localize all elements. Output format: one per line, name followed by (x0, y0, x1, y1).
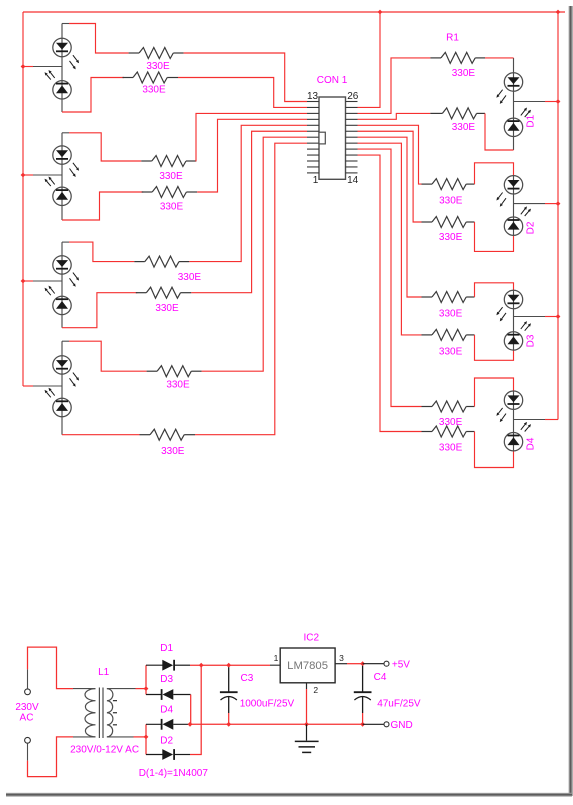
svg-text:1: 1 (274, 653, 279, 663)
svg-text:330E: 330E (452, 122, 476, 133)
wire +V to IC2 pin1 (270, 664, 280, 666)
wire D4 chain (513, 391, 515, 451)
LED D1 top (504, 73, 522, 91)
svg-text:330E: 330E (178, 272, 202, 283)
label 330E R2 (452, 122, 476, 133)
svg-text:D2: D2 (526, 221, 537, 234)
label GND (391, 720, 413, 731)
resistor D4b leads (422, 431, 475, 433)
wire top supply rail (23, 11, 565, 13)
junction ground node bridge (188, 722, 193, 727)
wire IC2 pin2 to ground (306, 683, 308, 725)
pin number 1 (313, 175, 319, 186)
label D1 right (526, 114, 537, 127)
wire D3 cathode (146, 689, 162, 695)
wire left common bus (22, 12, 24, 386)
wire rail to CON1 pin 25 (358, 12, 381, 107)
wire secondary top to bridge (107, 688, 146, 690)
junction secondary bottom (144, 735, 149, 740)
svg-text:330E: 330E (161, 446, 185, 457)
wire CON1 pin24 to R1 (358, 58, 431, 114)
label D2 (160, 735, 173, 746)
wire L3 top LED to resistor (62, 242, 134, 262)
svg-text:14: 14 (347, 175, 359, 186)
svg-text:IC2: IC2 (304, 633, 320, 644)
diode D1 1N4007 (162, 660, 174, 671)
terminal 230V AC neutral (25, 737, 31, 743)
svg-text:D1: D1 (160, 643, 173, 654)
LED D1 top arrows (496, 90, 506, 104)
LED L3 top (53, 256, 71, 274)
wire LED pair L2 tap (23, 174, 62, 176)
junction right bus D2 (556, 201, 561, 206)
label +5V (392, 659, 410, 670)
label L1 (98, 667, 110, 678)
wire D2 cathode to +V node (174, 665, 201, 754)
junction +V node a (199, 663, 204, 668)
LED L3 bottom (53, 296, 71, 314)
LED L4 top (53, 356, 71, 374)
wire CON1 to D4 top resistor (358, 149, 422, 406)
LED L4 top arrows (70, 373, 80, 387)
svg-text:330E: 330E (439, 309, 463, 320)
resistor D3a 330E (432, 292, 466, 303)
connector CON1 key notch (319, 132, 325, 144)
resistor D4a 330E (432, 401, 466, 412)
LED L2 top (53, 146, 71, 164)
wire D4a resistor to top LED (475, 378, 514, 407)
junction ground IC2 (304, 722, 309, 727)
diode D3 1N4007 (162, 689, 174, 700)
LED L2 bottom (53, 187, 71, 205)
svg-text:+5V: +5V (392, 659, 410, 670)
wire IC2 pin3 to +5V (335, 663, 363, 665)
svg-text:3: 3 (339, 653, 344, 663)
wire D3b resistor to bottom LED (475, 335, 514, 360)
wire L4 bottom LED to resistor (62, 434, 140, 436)
label 330E L2b (160, 202, 184, 213)
LED D4 bottom (504, 433, 522, 451)
resistor L4a leads (147, 370, 202, 372)
LED L4 bottom arrows (45, 388, 55, 398)
resistor D2b leads (422, 221, 475, 223)
resistor D3a leads (422, 296, 475, 298)
resistor L4a 330E (157, 366, 191, 377)
resistor D2b 330E (432, 217, 466, 228)
transformer L1 secondary (107, 689, 113, 737)
wire L4 top LED to resistor (62, 341, 147, 371)
LED D2 bottom (504, 217, 522, 235)
label 330E R1 (452, 68, 476, 79)
LED L3 bottom arrows (45, 286, 55, 296)
wire LED chain L1 (61, 24, 63, 113)
label D3 (160, 674, 173, 685)
LED D1 bottom (504, 118, 522, 136)
junction top-right rail/bus (556, 10, 561, 15)
LED D2 top arrows (496, 193, 506, 207)
label 230V AC (15, 702, 39, 724)
wire L3a resistor to CON1 (189, 125, 307, 261)
junction +V node b (226, 663, 231, 668)
diode D4 1N4007 (162, 719, 174, 730)
label 330E D4b (439, 443, 463, 454)
label 330E L1b (142, 85, 166, 96)
wire L4b resistor to CON1 (195, 143, 307, 435)
resistor L3a 330E (145, 256, 179, 267)
wire LED chain L4 (61, 341, 63, 435)
wire L3b resistor to CON1 (191, 131, 307, 292)
terminal +5V (384, 661, 389, 666)
resistor D3b leads (422, 334, 475, 336)
svg-text:CON 1: CON 1 (317, 75, 348, 86)
wire D4 cathode (146, 724, 162, 737)
svg-text:330E: 330E (439, 232, 463, 243)
wire ground rail (190, 723, 363, 725)
wire LED pair L4 tap (23, 385, 62, 387)
junction rail pin25 (378, 10, 383, 15)
wire D3a resistor to top LED (475, 283, 514, 297)
svg-text:330E: 330E (160, 202, 184, 213)
resistor L1a 330E (139, 48, 173, 59)
terminal GND (384, 722, 389, 727)
wire L2b resistor to CON1 (197, 119, 307, 192)
svg-text:230V: 230V (15, 702, 39, 713)
LED L4 bottom (53, 398, 71, 416)
wire R1 to D1 top LED (485, 57, 514, 59)
transformer L1 core (99, 688, 103, 739)
LED L1 bottom arrows (45, 70, 55, 80)
svg-text:330E: 330E (439, 196, 463, 207)
capacitor C4 47uF/25V (354, 666, 372, 725)
svg-text:330E: 330E (439, 443, 463, 454)
label 330E L4a (166, 380, 190, 391)
label 330E L4b (161, 446, 185, 457)
svg-text:2: 2 (313, 685, 318, 695)
wire GND stub (363, 723, 384, 725)
svg-text:230V/0-12V AC: 230V/0-12V AC (70, 745, 139, 756)
wire L3 bottom LED to resistor (62, 293, 137, 328)
svg-text:47uF/25V: 47uF/25V (377, 699, 421, 710)
label 330E D4a (439, 417, 463, 428)
svg-text:1000uF/25V: 1000uF/25V (240, 699, 295, 710)
svg-text:330E: 330E (439, 347, 463, 358)
resistor R2 leads (430, 112, 485, 114)
LED D2 top (504, 176, 522, 194)
svg-text:GND: GND (391, 720, 413, 731)
wire L2 bottom LED to resistor (62, 192, 143, 220)
wire CON1 to D4 bottom resistor (358, 155, 422, 431)
transformer L1 primary (85, 689, 96, 737)
page shadow right (569, 6, 573, 796)
pin number 14 (347, 175, 359, 186)
svg-text:D4: D4 (160, 705, 173, 716)
LED L1 top (53, 38, 71, 56)
junction right bus D1 (556, 99, 561, 104)
label 1000uF/25V (240, 699, 295, 710)
connector CON1 body (319, 97, 346, 179)
label D4 right (526, 437, 537, 450)
wire CON1 to D2 bottom resistor (358, 131, 422, 222)
LED L1 bottom (53, 81, 71, 99)
wire D2 tap to bus (514, 203, 559, 205)
wire D1 chain (513, 58, 515, 150)
wire D3 anode to ground node (173, 695, 190, 725)
svg-text:330E: 330E (166, 380, 190, 391)
resistor L3b 330E (146, 287, 180, 298)
wire D1 anode (146, 665, 163, 688)
ground (295, 724, 319, 752)
resistor R2 330E (442, 108, 476, 119)
label D2 right (526, 221, 537, 234)
svg-text:330E: 330E (155, 303, 179, 314)
wire CON1 pin23 to resistor R2 (358, 113, 431, 119)
svg-text:L1: L1 (98, 667, 110, 678)
label 47uF/25V (377, 699, 421, 710)
label D1 (160, 643, 173, 654)
wire D4b resistor to bottom LED (475, 432, 514, 468)
svg-text:330E: 330E (142, 85, 166, 96)
terminal 230V AC live (25, 689, 31, 695)
svg-text:330E: 330E (159, 171, 183, 182)
LED D3 bottom arrows (521, 321, 531, 331)
wire D4 tap to bus (514, 419, 559, 421)
pin number 13 (307, 91, 319, 102)
label D(1-4)=1N4007 (139, 768, 209, 779)
label 230V/0-12V AC (70, 745, 139, 756)
resistor R1 leads (430, 57, 485, 59)
svg-text:LM7805: LM7805 (287, 660, 328, 672)
resistor L1b 330E (133, 72, 167, 83)
wire L1a resistor to CON1 (184, 53, 307, 102)
svg-text:D1: D1 (526, 114, 537, 127)
resistor R1 330E (441, 52, 475, 63)
wire mains live to transformer (28, 647, 96, 689)
LED D4 bottom arrows (521, 422, 531, 432)
page shadow bottom (6, 793, 572, 797)
svg-text:R1: R1 (446, 33, 459, 44)
pin number 26 (347, 91, 359, 102)
svg-text:D2: D2 (160, 735, 173, 746)
label C3 (241, 673, 254, 684)
LED D4 top (504, 391, 522, 409)
wire R2 to D1 bottom LED (485, 113, 514, 150)
diode D2 1N4007 (162, 749, 174, 760)
resistor D3b 330E (432, 329, 466, 340)
junction left bus pair L2 (21, 173, 26, 178)
wire mains neutral to transformer (28, 737, 96, 777)
wire LED pair L3 tap (23, 280, 62, 282)
LED D4 top arrows (496, 408, 506, 422)
label R1 (446, 33, 459, 44)
label 330E L3a (178, 272, 202, 283)
label 330E L3b (155, 303, 179, 314)
resistor L3a leads (134, 261, 189, 263)
label D3 right (526, 334, 537, 347)
wire D3 chain (513, 290, 515, 350)
label CON 1 (317, 75, 348, 86)
wire LED chain L3 (61, 242, 63, 328)
resistor D4a leads (422, 406, 475, 408)
svg-text:D(1-4)=1N4007: D(1-4)=1N4007 (139, 768, 209, 779)
junction ground C3 (226, 722, 231, 727)
wire LED pair L1 tap (23, 66, 62, 68)
svg-text:AC: AC (20, 713, 34, 724)
junction ground C4 (360, 722, 365, 727)
junction secondary top (144, 686, 149, 691)
label 330E D3b (439, 347, 463, 358)
wire LED chain L2 (61, 133, 63, 220)
label 330E L1a (146, 61, 170, 72)
label D4 (160, 705, 173, 716)
wire L1b resistor to CON1 (178, 78, 307, 108)
wire D1 cathode to +V node (174, 664, 270, 666)
label 330E D2b (439, 232, 463, 243)
LED D1 bottom arrows (521, 108, 531, 118)
connector CON1 pins (307, 102, 358, 173)
wire secondary bottom to bridge (107, 736, 146, 738)
pin 3 IC2 (339, 653, 344, 663)
resistor D2a leads (422, 183, 475, 185)
wire D1 tap to bus (514, 101, 559, 103)
wire right common bus (557, 12, 559, 420)
wire D4 anode (173, 723, 190, 725)
LED L2 bottom arrows (45, 177, 55, 187)
svg-text:D3: D3 (160, 674, 173, 685)
junction +5V C4 (360, 661, 365, 666)
wire D2b resistor to bottom LED (475, 222, 514, 251)
transformer L1 secondary taps (113, 701, 117, 725)
LED D3 top (504, 290, 522, 308)
label 330E D2a (439, 196, 463, 207)
junction left bus pair L3 (21, 279, 26, 284)
resistor D2a 330E (432, 179, 466, 190)
wire D2a resistor to top LED (475, 163, 514, 184)
LED D3 top arrows (496, 307, 506, 321)
resistor L4b leads (140, 434, 196, 436)
wire L1 top LED to resistor (62, 24, 129, 54)
LED D3 bottom (504, 332, 522, 350)
svg-text:C4: C4 (374, 672, 387, 683)
wire L1 bottom LED to resistor (62, 78, 124, 113)
wire CON1 to D3 top resistor (358, 137, 422, 297)
wire L2 top LED to resistor (62, 133, 141, 161)
svg-text:1: 1 (313, 175, 319, 186)
pin 1 IC2 (274, 653, 279, 663)
pin 2 IC2 (313, 685, 318, 695)
wire +5V stub (363, 663, 384, 665)
regulator IC2 LM7805 body (280, 648, 335, 683)
svg-text:330E: 330E (452, 68, 476, 79)
svg-text:330E: 330E (439, 417, 463, 428)
label 330E D3a (439, 309, 463, 320)
LED D2 bottom arrows (521, 206, 531, 216)
label C4 (374, 672, 387, 683)
LED L1 top arrows (70, 55, 80, 69)
svg-text:D3: D3 (526, 334, 537, 347)
LED L2 top arrows (70, 163, 80, 177)
resistor L1a leads (129, 52, 184, 54)
svg-text:D4: D4 (526, 437, 537, 450)
wire CON1 to D2 top resistor (358, 125, 422, 184)
svg-text:13: 13 (307, 91, 319, 102)
svg-text:26: 26 (347, 91, 359, 102)
svg-text:330E: 330E (146, 61, 170, 72)
label IC2 (304, 633, 320, 644)
wire CON1 to D3 bottom resistor (358, 143, 422, 335)
label 330E L2a (159, 171, 183, 182)
capacitor C3 1000uF/25V (220, 667, 238, 724)
wire D3 tap to bus (514, 316, 559, 318)
junction left bus pair L1 (21, 64, 26, 69)
resistor D4b 330E (432, 426, 466, 437)
svg-text:C3: C3 (241, 673, 254, 684)
LED L3 top arrows (70, 273, 80, 287)
wire D2 chain (513, 176, 515, 236)
wire D2 anode (146, 737, 163, 755)
resistor L3b leads (136, 292, 192, 294)
resistor L2a 330E (152, 156, 186, 167)
wire L4a resistor to CON1 (202, 137, 307, 371)
resistor L1b leads (123, 77, 179, 79)
resistor L2b leads (142, 191, 198, 193)
junction right bus D3 (556, 314, 561, 319)
wire L2a resistor to CON1 (196, 113, 307, 161)
resistor L4b 330E (150, 429, 184, 440)
resistor L2b 330E (152, 187, 186, 198)
resistor L2a leads (141, 160, 196, 162)
